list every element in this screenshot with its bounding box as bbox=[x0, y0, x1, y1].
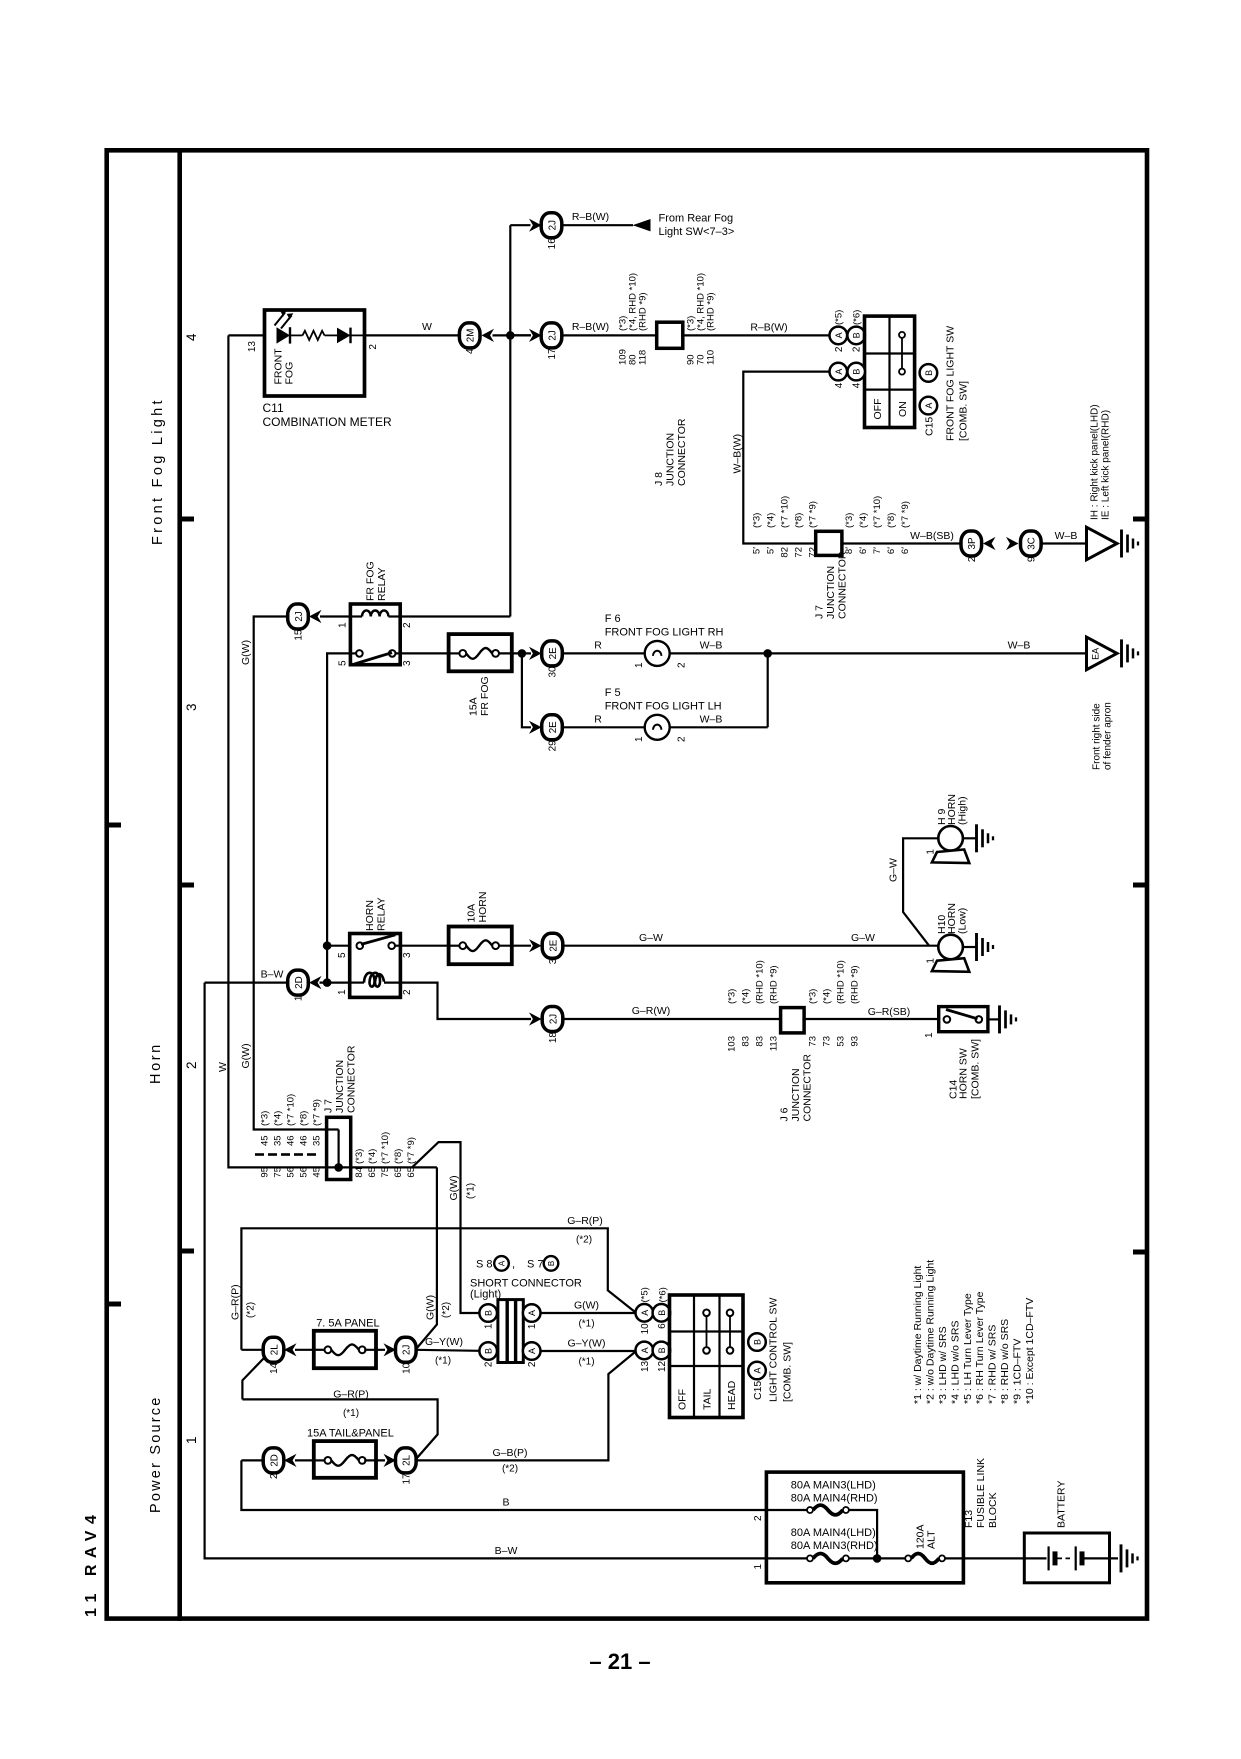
svg-text:(*3): (*3) bbox=[808, 989, 819, 1004]
C15 pin circles for fog SW bbox=[920, 364, 938, 382]
svg-text:2: 2 bbox=[527, 1361, 538, 1367]
svg-text:2J: 2J bbox=[548, 1014, 559, 1024]
svg-text:G–R(P): G–R(P) bbox=[567, 1215, 603, 1227]
svg-text:C11: C11 bbox=[263, 401, 284, 415]
svg-text:*1 : w/ Daytime Running Light: *1 : w/ Daytime Running Light bbox=[912, 1266, 924, 1404]
wire G-R(P) *1 row bbox=[242, 1399, 437, 1458]
svg-text:G(W): G(W) bbox=[574, 1300, 599, 1312]
svg-text:HORN: HORN bbox=[364, 900, 376, 931]
wire from 2M to junction bbox=[493, 334, 532, 336]
svg-text:(*7 *10): (*7 *10) bbox=[872, 496, 883, 528]
svg-text:G–W: G–W bbox=[639, 932, 663, 944]
fuse 7.5A PANEL box bbox=[314, 1331, 376, 1368]
wire from horn relay pin 3 to fuse 10A HORN bbox=[400, 945, 449, 947]
connector 2M bbox=[459, 323, 480, 348]
svg-text:B: B bbox=[484, 1348, 494, 1354]
wire B-W from horn feed down to fusible link block bbox=[205, 983, 767, 1559]
C14 ground bbox=[988, 1018, 1000, 1020]
wire G(W) from 2J15 down to J7 junction connector bbox=[254, 617, 339, 1130]
svg-text:ALT: ALT bbox=[926, 1530, 938, 1549]
wire G-R(W) to J6 bbox=[563, 1018, 781, 1020]
svg-text:2: 2 bbox=[967, 556, 978, 562]
wire G(W) *1 from J7 to short connector bbox=[412, 1142, 479, 1313]
svg-text:BATTERY: BATTERY bbox=[1055, 1481, 1067, 1528]
svg-text:S 7: S 7 bbox=[527, 1259, 544, 1271]
svg-text:B–W: B–W bbox=[495, 1545, 518, 1557]
svg-text:4: 4 bbox=[465, 348, 476, 354]
svg-text:2: 2 bbox=[269, 1473, 280, 1479]
svg-text:(*4): (*4) bbox=[273, 1111, 284, 1126]
C15 pin circles light control bbox=[748, 1333, 766, 1351]
wire from relay pin 2 up to R-B(W) junction bbox=[400, 615, 510, 617]
svg-text:G–R(P): G–R(P) bbox=[229, 1284, 241, 1320]
arrow into 2J pin 17 bbox=[529, 329, 542, 342]
svg-text:G(W): G(W) bbox=[240, 640, 252, 665]
svg-text:W–B: W–B bbox=[1055, 530, 1078, 542]
wire R-B(W) to rear fog light SW bbox=[562, 224, 634, 226]
HORN relay box bbox=[350, 934, 401, 998]
svg-text:G(W): G(W) bbox=[425, 1295, 437, 1320]
vertical tie between RH and LH return bbox=[767, 653, 769, 727]
junction node fog lights bbox=[763, 649, 772, 658]
svg-text:*6 : RH Turn Lever Type: *6 : RH Turn Lever Type bbox=[974, 1291, 986, 1404]
FR FOG relay box bbox=[350, 604, 400, 665]
vertical wire from junction up to rear fog branch and down to relay bbox=[509, 225, 511, 616]
svg-text:(*1): (*1) bbox=[435, 1356, 451, 1367]
svg-text:*8 : RHD w/o SRS: *8 : RHD w/o SRS bbox=[999, 1319, 1011, 1404]
connector 2J pin 10 bbox=[396, 1337, 417, 1362]
svg-text:JUNCTION: JUNCTION bbox=[334, 1060, 346, 1113]
svg-text:COMBINATION METER: COMBINATION METER bbox=[263, 415, 392, 429]
svg-text:FR FOG: FR FOG bbox=[365, 561, 377, 601]
svg-text:1: 1 bbox=[527, 1323, 538, 1329]
svg-text:B: B bbox=[852, 332, 862, 338]
svg-text:4: 4 bbox=[852, 382, 863, 388]
svg-text:(*4): (*4) bbox=[822, 989, 833, 1004]
svg-text:(Light): (Light) bbox=[470, 1289, 501, 1301]
connector 2L pin 14 bbox=[263, 1337, 284, 1362]
svg-text:35: 35 bbox=[273, 1135, 284, 1146]
svg-text:56: 56 bbox=[286, 1167, 297, 1178]
svg-text:16: 16 bbox=[547, 238, 558, 250]
svg-text:R–B(W): R–B(W) bbox=[572, 211, 609, 223]
svg-text:FRONT FOG LIGHT LH: FRONT FOG LIGHT LH bbox=[605, 701, 722, 713]
svg-text:A: A bbox=[527, 1310, 537, 1316]
light control SW pin B row2 bbox=[653, 1342, 671, 1360]
svg-text:J 7: J 7 bbox=[814, 605, 826, 619]
svg-text:(*8): (*8) bbox=[299, 1111, 310, 1126]
horn high H9 bbox=[938, 826, 963, 851]
connector 2J pin 16 bbox=[541, 213, 562, 238]
svg-text:EA: EA bbox=[1091, 648, 1101, 660]
svg-text:2L: 2L bbox=[402, 1454, 413, 1465]
junction after fog fuse bbox=[518, 649, 527, 658]
svg-text:A: A bbox=[924, 403, 934, 409]
svg-text:(RHD *9): (RHD *9) bbox=[850, 965, 861, 1004]
svg-text:30: 30 bbox=[548, 666, 559, 678]
outer border frame bbox=[107, 150, 1147, 1618]
svg-text:9: 9 bbox=[1026, 556, 1037, 562]
svg-text:Power Source: Power Source bbox=[148, 1396, 164, 1513]
svg-text:73: 73 bbox=[822, 1036, 833, 1047]
svg-text:(*6): (*6) bbox=[658, 1287, 669, 1302]
svg-text:35: 35 bbox=[312, 1135, 323, 1146]
svg-text:LIGHT CONTROL SW: LIGHT CONTROL SW bbox=[768, 1297, 780, 1402]
arrow into 2J pin 15 bbox=[309, 610, 322, 623]
arrow into 2D pin 1 bbox=[309, 976, 322, 989]
svg-text:5′: 5′ bbox=[766, 547, 777, 554]
svg-text:R–B(W): R–B(W) bbox=[572, 321, 609, 333]
svg-text:80A MAIN4(RHD): 80A MAIN4(RHD) bbox=[791, 1493, 878, 1505]
svg-text:1: 1 bbox=[634, 736, 645, 742]
svg-text:(*1): (*1) bbox=[343, 1408, 359, 1419]
svg-text:*4 : LHD w/o SRS: *4 : LHD w/o SRS bbox=[949, 1321, 961, 1404]
svg-text:80A MAIN4(LHD): 80A MAIN4(LHD) bbox=[791, 1527, 876, 1539]
svg-text:110: 110 bbox=[706, 350, 717, 365]
light control SW pin A row1 bbox=[636, 1304, 654, 1322]
svg-text:A: A bbox=[640, 1310, 650, 1316]
svg-text:2J: 2J bbox=[547, 330, 558, 340]
svg-text:75: 75 bbox=[380, 1167, 391, 1178]
svg-text:5′: 5′ bbox=[752, 547, 763, 554]
arrow into 2L pin 14 bbox=[284, 1343, 297, 1356]
connector 2J pin 18 bbox=[542, 1007, 563, 1032]
svg-text:(*8): (*8) bbox=[886, 513, 897, 528]
svg-text:G(W): G(W) bbox=[240, 1043, 252, 1068]
short connector pin A2 bbox=[523, 1342, 541, 1360]
connector 3C bbox=[1021, 531, 1042, 556]
horn SW C14 box bbox=[939, 1007, 988, 1032]
front fog light LH bulb F5 bbox=[645, 715, 670, 740]
svg-text:(RHD *10): (RHD *10) bbox=[836, 960, 847, 1004]
svg-text:G–Y(W): G–Y(W) bbox=[425, 1336, 463, 1348]
wire from horn relay pin 2 down to 2J pin 18 bbox=[400, 983, 531, 1019]
resistor inside C11 bbox=[303, 331, 325, 340]
light control SW pin B row1 bbox=[653, 1304, 671, 1322]
svg-text:C15: C15 bbox=[752, 1381, 764, 1400]
svg-text:72: 72 bbox=[808, 547, 819, 558]
FR FOG relay coil bbox=[350, 615, 362, 617]
short connector pin A1 bbox=[523, 1304, 541, 1322]
svg-text:B: B bbox=[547, 1261, 556, 1266]
svg-text:F13: F13 bbox=[963, 1510, 975, 1528]
HORN relay switch bbox=[357, 942, 364, 949]
wire G-R(SB) from J6 to horn SW bbox=[804, 1018, 939, 1020]
svg-text:W–B: W–B bbox=[700, 640, 723, 652]
svg-text:CONNECTOR: CONNECTOR bbox=[837, 551, 849, 619]
svg-text:W–B(SB): W–B(SB) bbox=[910, 530, 954, 542]
svg-text:(*1): (*1) bbox=[578, 1357, 594, 1368]
svg-text:– 21 –: – 21 – bbox=[589, 1649, 650, 1674]
svg-text:95: 95 bbox=[260, 1167, 271, 1178]
svg-text:(*4): (*4) bbox=[766, 513, 777, 528]
svg-text:53: 53 bbox=[836, 1036, 847, 1047]
svg-text:118: 118 bbox=[638, 350, 649, 365]
junction connector J7 box (fog) bbox=[816, 531, 842, 555]
svg-text:17: 17 bbox=[401, 1473, 412, 1485]
svg-text:3: 3 bbox=[184, 703, 199, 711]
svg-text:83: 83 bbox=[755, 1036, 766, 1047]
svg-text:G–R(P): G–R(P) bbox=[333, 1389, 369, 1401]
svg-text:10: 10 bbox=[640, 1323, 651, 1335]
svg-text:(*2): (*2) bbox=[246, 1302, 257, 1318]
svg-text:(*7 *9): (*7 *9) bbox=[900, 501, 911, 528]
light control SW box bbox=[670, 1295, 744, 1418]
wire from relay pin 3 to fuse 15A FR FOG bbox=[400, 652, 449, 654]
connector 2D pin 1 bbox=[288, 970, 309, 995]
svg-text:C15: C15 bbox=[924, 417, 936, 436]
svg-text:2J: 2J bbox=[402, 1345, 413, 1355]
arrows between 3P and 3C bbox=[983, 537, 996, 550]
svg-text:2D: 2D bbox=[294, 976, 305, 989]
short connector pin B2 bbox=[479, 1342, 497, 1360]
svg-text:BLOCK: BLOCK bbox=[987, 1492, 999, 1528]
wire B-W corner to horn relay feed bbox=[205, 981, 288, 983]
svg-text:82: 82 bbox=[780, 547, 791, 558]
junction in fusible link block bbox=[873, 1554, 882, 1563]
svg-text:5: 5 bbox=[338, 660, 349, 666]
svg-text:(*3): (*3) bbox=[844, 513, 855, 528]
front fog light RH bulb F6 bbox=[645, 641, 670, 666]
svg-text:(*3): (*3) bbox=[727, 989, 738, 1004]
connector 2E pin 30 bbox=[542, 641, 563, 666]
connector 2E pin 29 bbox=[542, 715, 563, 740]
svg-text:(*7 *9): (*7 *9) bbox=[312, 1099, 323, 1126]
svg-text:*7 : RHD w/ SRS: *7 : RHD w/ SRS bbox=[987, 1325, 999, 1404]
svg-text:1: 1 bbox=[184, 1436, 199, 1444]
wire W-B(SB) from J7 to 3P bbox=[842, 542, 962, 544]
svg-text:R: R bbox=[594, 713, 602, 725]
sidebar divider line bbox=[177, 148, 182, 1621]
connector 2E pin 3 bbox=[542, 933, 563, 958]
fuse 10A HORN box bbox=[449, 927, 512, 965]
svg-text:80A MAIN3(LHD): 80A MAIN3(LHD) bbox=[791, 1480, 876, 1492]
svg-text:4: 4 bbox=[834, 382, 845, 388]
svg-text:(*8): (*8) bbox=[794, 513, 805, 528]
svg-text:18: 18 bbox=[548, 1032, 559, 1044]
svg-text:(*1): (*1) bbox=[466, 1183, 477, 1199]
svg-text:2: 2 bbox=[484, 1361, 495, 1367]
svg-text:46: 46 bbox=[286, 1135, 297, 1146]
wire W down from C11 to J7 junction connector bbox=[228, 335, 437, 1167]
wire G(W) *2 from J7 to panel fuse output bbox=[417, 1167, 437, 1348]
svg-text:R–B(W): R–B(W) bbox=[750, 322, 787, 334]
svg-text:2J: 2J bbox=[294, 611, 305, 621]
svg-text:(*2): (*2) bbox=[502, 1464, 518, 1475]
svg-text:2: 2 bbox=[677, 662, 688, 668]
svg-text:2: 2 bbox=[368, 344, 379, 350]
svg-text:10A: 10A bbox=[466, 904, 478, 923]
svg-text:2D: 2D bbox=[269, 1454, 280, 1467]
svg-text:*5 : LH Turn Lever Type: *5 : LH Turn Lever Type bbox=[962, 1293, 974, 1404]
svg-text:A: A bbox=[834, 369, 844, 375]
svg-text:B: B bbox=[753, 1339, 763, 1345]
ground triangle EA fender apron bbox=[1087, 637, 1118, 670]
svg-text:15: 15 bbox=[294, 629, 305, 641]
svg-text:1: 1 bbox=[338, 622, 349, 628]
front fog light SW box bbox=[865, 316, 915, 427]
wire W from C11 pin 2 to connector 2M bbox=[365, 334, 460, 336]
svg-text:7. 5A PANEL: 7. 5A PANEL bbox=[316, 1318, 379, 1330]
wire from relay pin 5 down to horn relay bbox=[327, 653, 350, 982]
svg-text:R: R bbox=[594, 640, 602, 652]
svg-text:(*7 *10): (*7 *10) bbox=[286, 1094, 297, 1126]
junction dot inside J7 bbox=[334, 1163, 343, 1172]
svg-text:1: 1 bbox=[634, 662, 645, 668]
junction connector J7 box (power) bbox=[327, 1117, 351, 1179]
arrow into 2L pin 17 bbox=[384, 1454, 397, 1467]
pin circle B of fog light SW row 1 bbox=[847, 327, 865, 345]
fuse 15A FR FOG box bbox=[449, 634, 512, 671]
branch down to front fog light LH bbox=[522, 653, 531, 727]
svg-text:1: 1 bbox=[926, 958, 937, 964]
ground triangle IH/IE kick panel bbox=[1087, 527, 1118, 560]
svg-text:W–B(W): W–B(W) bbox=[732, 434, 744, 474]
section boundary ticks on divider bbox=[181, 517, 194, 522]
svg-text:TAIL: TAIL bbox=[702, 1388, 714, 1410]
wire G-B(P) from 2L17 to light control SW bbox=[416, 1352, 636, 1461]
svg-text:75: 75 bbox=[273, 1167, 284, 1178]
section boundary ticks on right border bbox=[1133, 517, 1146, 522]
svg-text:65: 65 bbox=[367, 1167, 378, 1178]
svg-text:(*8): (*8) bbox=[393, 1149, 404, 1164]
svg-text:of fender apron: of fender apron bbox=[1103, 702, 1114, 770]
connector 2D pin 2 bbox=[263, 1448, 284, 1473]
svg-text:JUNCTION: JUNCTION bbox=[790, 1068, 802, 1121]
svg-text:G–R(W): G–R(W) bbox=[632, 1005, 671, 1017]
svg-text:IH : Right kick panel(LHD): IH : Right kick panel(LHD) bbox=[1090, 404, 1101, 520]
svg-text:65: 65 bbox=[393, 1167, 404, 1178]
svg-text:80A MAIN3(RHD): 80A MAIN3(RHD) bbox=[791, 1540, 878, 1552]
connector 2L pin 17 bbox=[396, 1448, 417, 1473]
junction at horn relay pin 5 riser bbox=[323, 941, 332, 950]
svg-text:G–B(P): G–B(P) bbox=[492, 1447, 527, 1459]
svg-text:15A TAIL&PANEL: 15A TAIL&PANEL bbox=[307, 1427, 394, 1439]
battery ground bbox=[1121, 1544, 1138, 1572]
wire W-B(W) from fog SW pin 4 down to J7 bbox=[743, 372, 829, 544]
wire from riser to 2L pin 14 bbox=[241, 1349, 264, 1351]
wire W from pin 13 of C11 bbox=[228, 334, 264, 336]
svg-text:FRONT FOG LIGHT SW: FRONT FOG LIGHT SW bbox=[945, 326, 957, 441]
svg-text:45: 45 bbox=[312, 1167, 323, 1178]
svg-text:*10 : Except 1CD–FTV: *10 : Except 1CD–FTV bbox=[1024, 1298, 1036, 1404]
svg-text:HORN SW: HORN SW bbox=[958, 1048, 970, 1099]
svg-text:2: 2 bbox=[753, 1515, 764, 1521]
arrow to From Rear Fog Light SW bbox=[633, 219, 651, 231]
wire branch up to horn high bbox=[903, 838, 938, 945]
svg-text:B: B bbox=[852, 369, 862, 375]
svg-text:B: B bbox=[924, 370, 934, 376]
svg-text:(*3): (*3) bbox=[260, 1111, 271, 1126]
svg-text:2: 2 bbox=[677, 736, 688, 742]
svg-text:6′: 6′ bbox=[858, 547, 869, 554]
arrow into 2E pin 29 bbox=[529, 721, 542, 734]
svg-text:(*6): (*6) bbox=[852, 310, 863, 325]
svg-text:OFF: OFF bbox=[677, 1389, 689, 1410]
wire from relay pin1 to 2J pin 15 bbox=[320, 615, 350, 617]
svg-text:,: , bbox=[512, 1259, 515, 1271]
arrow into 2J pin 18 bbox=[529, 1012, 542, 1025]
fusible link 80A MAIN3/MAIN4 top bbox=[766, 1509, 807, 1511]
svg-text:3C: 3C bbox=[1027, 537, 1038, 550]
svg-text:W: W bbox=[422, 321, 432, 333]
svg-text:(*1): (*1) bbox=[578, 1319, 594, 1330]
svg-text:Front Fog Light: Front Fog Light bbox=[150, 397, 166, 545]
svg-text:A: A bbox=[834, 332, 844, 338]
arrow into 2D pin 2 bbox=[284, 1454, 297, 1467]
svg-text:2: 2 bbox=[184, 1061, 199, 1069]
svg-text:(Low): (Low) bbox=[956, 908, 968, 934]
wire into horn relay pin 5 bbox=[327, 945, 350, 947]
svg-text:G–R(SB): G–R(SB) bbox=[868, 1006, 911, 1018]
svg-text:OFF: OFF bbox=[872, 399, 884, 420]
svg-text:83: 83 bbox=[741, 1036, 752, 1047]
svg-text:3: 3 bbox=[548, 958, 559, 964]
svg-text:4: 4 bbox=[184, 333, 199, 341]
H9 ground bbox=[963, 837, 977, 839]
svg-text:1: 1 bbox=[294, 995, 305, 1001]
svg-text:11 RAV4: 11 RAV4 bbox=[83, 1509, 100, 1617]
short connector pin B1 bbox=[479, 1304, 497, 1322]
ticks on outer left border bbox=[108, 823, 121, 828]
svg-text:13: 13 bbox=[247, 341, 258, 353]
svg-text:RELAY: RELAY bbox=[376, 567, 388, 601]
svg-text:G–Y(W): G–Y(W) bbox=[568, 1338, 606, 1350]
battery symbol bbox=[1024, 1557, 1046, 1559]
fuse 15A TAIL&PANEL box bbox=[314, 1441, 376, 1478]
wire R to front fog light RH bbox=[562, 652, 645, 654]
svg-text:[COMB. SW]: [COMB. SW] bbox=[958, 381, 970, 441]
svg-text:12: 12 bbox=[657, 1360, 668, 1372]
combination meter C11 box bbox=[265, 310, 365, 396]
svg-text:6′: 6′ bbox=[886, 547, 897, 554]
svg-text:(*3): (*3) bbox=[354, 1149, 365, 1164]
svg-text:2L: 2L bbox=[269, 1344, 280, 1355]
wire G(W) from short connector to light control SW bbox=[541, 1312, 636, 1314]
svg-text:HEAD: HEAD bbox=[726, 1380, 738, 1410]
fog SW contact in ON column bbox=[901, 335, 903, 372]
junction at horn relay pin 1 feed bbox=[323, 978, 332, 987]
svg-text:IE : Left kick panel(RHD): IE : Left kick panel(RHD) bbox=[1101, 410, 1112, 520]
arrow into 2E pin 30 bbox=[529, 647, 542, 660]
svg-text:6: 6 bbox=[657, 1323, 668, 1329]
battery box bbox=[1024, 1533, 1109, 1583]
svg-text:JUNCTION: JUNCTION bbox=[825, 566, 837, 619]
svg-text:56: 56 bbox=[299, 1167, 310, 1178]
svg-text:1: 1 bbox=[924, 1032, 935, 1038]
fusible link 120A ALT bbox=[905, 1555, 911, 1561]
svg-text:[COMB. SW]: [COMB. SW] bbox=[782, 1342, 794, 1402]
svg-text:2J: 2J bbox=[547, 220, 558, 230]
arrow into 2E pin 3 bbox=[529, 939, 542, 952]
wire R-B(W) from J8 to front fog light SW bbox=[683, 334, 830, 336]
svg-text:JUNCTION: JUNCTION bbox=[665, 433, 677, 486]
svg-text:6′: 6′ bbox=[900, 547, 911, 554]
pin circle B of fog light SW row 2 bbox=[847, 363, 865, 381]
svg-text:A: A bbox=[497, 1260, 506, 1266]
svg-text:CONNECTOR: CONNECTOR bbox=[802, 1054, 814, 1122]
svg-text:93: 93 bbox=[850, 1036, 861, 1047]
svg-text:1: 1 bbox=[753, 1564, 764, 1570]
fusible link block F13 box bbox=[766, 1472, 963, 1583]
wire W-B to kick panel ground bbox=[1041, 542, 1087, 544]
svg-text:(*5): (*5) bbox=[640, 1287, 651, 1302]
wire R to front fog light LH bbox=[562, 726, 645, 728]
svg-text:Light SW<7–3>: Light SW<7–3> bbox=[659, 226, 735, 238]
svg-text:Front right side: Front right side bbox=[1092, 703, 1103, 770]
svg-text:(RHD *9): (RHD *9) bbox=[769, 965, 780, 1004]
wire W-B from F5 to junction bbox=[670, 726, 768, 728]
